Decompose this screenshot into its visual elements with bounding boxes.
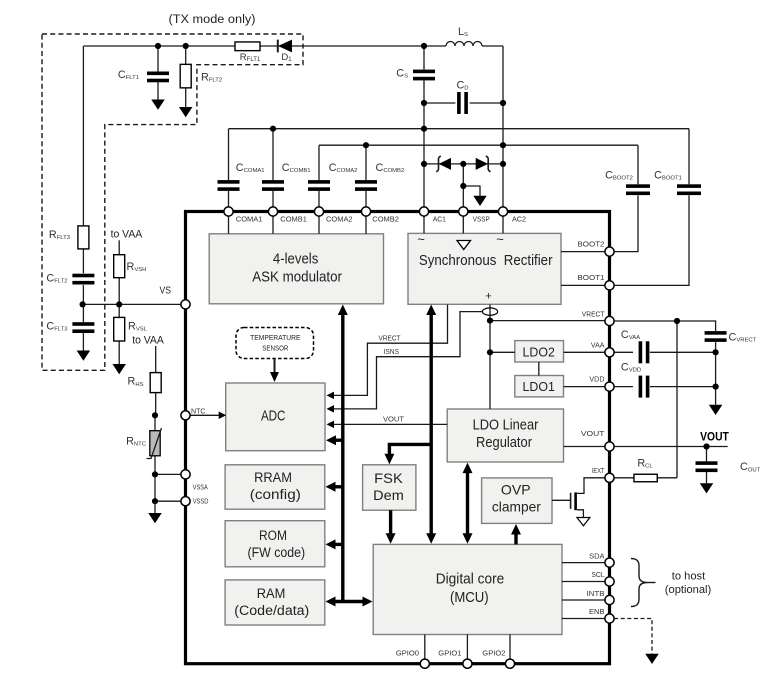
svg-text:CFLT1: CFLT1 bbox=[118, 69, 139, 81]
svg-text:GPIO0: GPIO0 bbox=[396, 648, 419, 657]
svg-text:ASK modulator: ASK modulator bbox=[252, 269, 342, 285]
svg-text:CFLT3: CFLT3 bbox=[46, 321, 68, 333]
svg-text:D1: D1 bbox=[281, 52, 292, 63]
svg-text:RAM: RAM bbox=[257, 586, 286, 601]
svg-text:ENB: ENB bbox=[589, 607, 605, 616]
svg-text:RFLT3: RFLT3 bbox=[49, 229, 71, 241]
svg-text:(Code/data): (Code/data) bbox=[234, 603, 309, 618]
svg-text:to VAA: to VAA bbox=[111, 228, 143, 240]
svg-text:(MCU): (MCU) bbox=[450, 590, 489, 606]
svg-text:INTB: INTB bbox=[587, 589, 605, 598]
svg-text:RCL: RCL bbox=[637, 457, 653, 469]
svg-text:VSSP: VSSP bbox=[473, 215, 490, 224]
svg-text:IEXT: IEXT bbox=[592, 466, 605, 475]
svg-text:Regulator: Regulator bbox=[476, 435, 532, 451]
svg-text:Synchronous Rectifier: Synchronous Rectifier bbox=[419, 253, 553, 269]
svg-text:CCOMA1: CCOMA1 bbox=[236, 162, 265, 174]
svg-text:VRECT: VRECT bbox=[582, 309, 605, 318]
svg-text:VDD: VDD bbox=[589, 375, 605, 384]
svg-text:LDO Linear: LDO Linear bbox=[473, 417, 539, 433]
svg-text:(optional): (optional) bbox=[665, 584, 711, 596]
svg-text:Digital core: Digital core bbox=[436, 571, 505, 587]
svg-text:CCOMB2: CCOMB2 bbox=[376, 162, 405, 174]
svg-text:ROM: ROM bbox=[259, 528, 287, 543]
svg-text:TEMPERATURE: TEMPERATURE bbox=[250, 335, 301, 342]
svg-text:RFLT1: RFLT1 bbox=[240, 52, 261, 63]
svg-text:VAA: VAA bbox=[591, 340, 605, 349]
svg-text:LDO2: LDO2 bbox=[523, 345, 555, 360]
svg-text:to host: to host bbox=[672, 571, 705, 583]
svg-text:RFLT2: RFLT2 bbox=[201, 72, 222, 84]
svg-text:VRECT: VRECT bbox=[379, 333, 401, 342]
svg-text:RVSL: RVSL bbox=[128, 321, 148, 333]
svg-text:NTC: NTC bbox=[191, 407, 206, 416]
svg-text:Dem: Dem bbox=[373, 488, 404, 503]
svg-text:(config): (config) bbox=[250, 487, 301, 502]
svg-text:ISNS: ISNS bbox=[384, 347, 400, 356]
svg-text:LS: LS bbox=[458, 26, 468, 38]
svg-text:CCOMA2: CCOMA2 bbox=[329, 162, 358, 174]
svg-text:COMB2: COMB2 bbox=[372, 215, 399, 224]
svg-text:OVP: OVP bbox=[501, 481, 531, 497]
svg-text:GPIO2: GPIO2 bbox=[482, 648, 505, 657]
svg-text:AC2: AC2 bbox=[512, 215, 526, 224]
svg-text:CVRECT: CVRECT bbox=[729, 331, 757, 343]
svg-text:VOUT: VOUT bbox=[383, 415, 404, 424]
svg-text:COMB1: COMB1 bbox=[280, 215, 307, 224]
svg-text:ADC: ADC bbox=[261, 407, 286, 424]
svg-text:CBOOT1: CBOOT1 bbox=[654, 169, 682, 181]
svg-text:AC1: AC1 bbox=[433, 215, 446, 224]
svg-text:CCOMB1: CCOMB1 bbox=[282, 162, 311, 174]
svg-text:clamper: clamper bbox=[492, 499, 541, 515]
svg-text:COMA2: COMA2 bbox=[326, 215, 353, 224]
svg-text:SENSOR: SENSOR bbox=[262, 346, 288, 353]
svg-text:~: ~ bbox=[496, 232, 504, 247]
svg-text:BOOT1: BOOT1 bbox=[578, 273, 605, 282]
svg-text:VS: VS bbox=[160, 286, 172, 297]
svg-text:(FW code): (FW code) bbox=[248, 545, 306, 560]
svg-text:RVSH: RVSH bbox=[127, 261, 147, 273]
svg-text:CVAA: CVAA bbox=[621, 329, 640, 341]
svg-text:+: + bbox=[485, 291, 491, 303]
svg-text:VOUT: VOUT bbox=[700, 432, 729, 444]
svg-text:~: ~ bbox=[417, 232, 425, 247]
svg-text:SCL: SCL bbox=[592, 570, 605, 579]
svg-text:CD: CD bbox=[456, 79, 468, 91]
svg-text:LDO1: LDO1 bbox=[523, 379, 555, 394]
svg-text:COUT: COUT bbox=[740, 461, 761, 473]
svg-text:CS: CS bbox=[396, 68, 408, 80]
svg-text:SDA: SDA bbox=[589, 551, 605, 560]
svg-text:RHS: RHS bbox=[128, 376, 144, 388]
svg-text:GPIO1: GPIO1 bbox=[438, 648, 461, 657]
svg-text:CBOOT2: CBOOT2 bbox=[605, 169, 633, 181]
svg-text:(TX mode only): (TX mode only) bbox=[169, 14, 256, 26]
svg-text:BOOT2: BOOT2 bbox=[578, 239, 605, 248]
svg-text:CVDD: CVDD bbox=[621, 361, 641, 373]
svg-text:4-levels: 4-levels bbox=[273, 252, 318, 268]
svg-text:CFLT2: CFLT2 bbox=[46, 273, 67, 285]
svg-text:RRAM: RRAM bbox=[254, 470, 292, 485]
svg-text:VOUT: VOUT bbox=[581, 429, 605, 438]
svg-text:FSK: FSK bbox=[374, 471, 403, 486]
svg-text:VSSD: VSSD bbox=[193, 496, 209, 505]
svg-text:to VAA: to VAA bbox=[132, 335, 164, 347]
svg-text:RNTC: RNTC bbox=[126, 435, 147, 447]
svg-text:COMA1: COMA1 bbox=[236, 215, 263, 224]
svg-text:VSSA: VSSA bbox=[193, 483, 209, 492]
